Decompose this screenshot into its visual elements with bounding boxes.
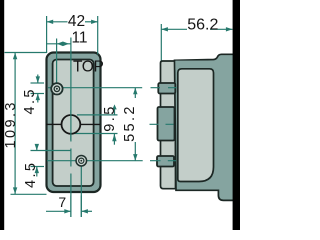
ext line 56.2 left bbox=[160, 24, 162, 61]
dim 42 arrow left bbox=[47, 20, 54, 24]
centerline over circle bbox=[70, 110, 72, 140]
side view body silhouette bbox=[175, 54, 235, 200]
ext line 4.5top lower bbox=[31, 93, 45, 95]
ext line 9.5 top bbox=[77, 114, 118, 116]
svg-text:42: 42 bbox=[68, 13, 85, 30]
ext line 109.3 top bbox=[5, 52, 47, 54]
svg-text:109.3: 109.3 bbox=[3, 100, 19, 148]
big circle bbox=[62, 115, 81, 134]
dim 109.3 arrow top bbox=[13, 53, 17, 60]
dim 7 arrow right-pointing bbox=[64, 209, 71, 213]
dim 9.5 arrow up-inward bbox=[112, 134, 116, 142]
dim 4.5top arrow up bbox=[36, 94, 40, 101]
dim 4.5bot arrow down bbox=[35, 144, 39, 151]
dim 4.5bot arrow up bbox=[35, 167, 39, 174]
centerline screw3 vertical lower bbox=[80, 166, 82, 217]
side view front plate bbox=[161, 61, 176, 189]
dim 56.2 arrow right-pointing bbox=[226, 27, 233, 31]
centerline tab2 dashes bbox=[150, 123, 174, 125]
screw2 bottom bbox=[75, 155, 87, 167]
dim 9.5 upper shaft bbox=[114, 109, 116, 115]
dim 7 arrow left-pointing bbox=[81, 209, 88, 213]
dim 4.5bot upper line bbox=[36, 144, 38, 151]
ext line 42 right bbox=[97, 16, 99, 55]
ext line 109.3 bottom bbox=[11, 193, 47, 195]
dim 4.5top lower line bbox=[37, 94, 39, 103]
black axis line through circle left bbox=[46, 123, 62, 125]
dim 4.5top arrow down bbox=[36, 76, 40, 83]
svg-text:TOP: TOP bbox=[73, 58, 103, 75]
centerline circle vertical bbox=[70, 38, 72, 218]
ext line 4.5top upper bbox=[31, 82, 45, 84]
ext line 9.5 bottom bbox=[70, 133, 118, 135]
left black bar bbox=[0, 0, 4, 230]
svg-text:9.5: 9.5 bbox=[102, 104, 118, 131]
dimension extension lines (teal) bbox=[5, 16, 162, 217]
svg-text:11: 11 bbox=[71, 30, 87, 47]
dim 11 line bbox=[47, 43, 71, 45]
dim 42 arrow right bbox=[91, 20, 98, 24]
svg-text:4.5: 4.5 bbox=[22, 87, 38, 114]
svg-text:7: 7 bbox=[58, 194, 66, 210]
centerline screw1 horizontal bbox=[48, 87, 142, 89]
side view top band bbox=[175, 61, 213, 70]
front view outer housing bbox=[47, 53, 101, 193]
centerline screw1 vertical bbox=[56, 39, 58, 85]
tab1 bbox=[158, 83, 175, 94]
dim 55.2 line bottom bbox=[134, 142, 136, 161]
ext line 42 left bbox=[46, 16, 48, 53]
dimension texts bbox=[3, 13, 218, 210]
dim 56.2 arrow left-pointing bbox=[161, 27, 168, 31]
svg-text:4.5: 4.5 bbox=[23, 161, 39, 188]
front view inner panel bbox=[53, 60, 94, 187]
right black bar bbox=[233, 0, 240, 230]
svg-text:55.2: 55.2 bbox=[122, 104, 138, 142]
dim 56.2 line left bbox=[161, 28, 187, 30]
dim 109.3 arrow bottom bbox=[13, 187, 17, 194]
centerline tab1 dashes bbox=[151, 87, 177, 89]
dim 55.2 line top bbox=[134, 88, 136, 98]
dim 56.2 line right bbox=[210, 28, 233, 30]
dim 11 arrows diamond bbox=[57, 42, 69, 47]
ext line 7 right tick bbox=[80, 196, 82, 218]
ext line 7 left tick bbox=[70, 196, 72, 218]
dim 42 line right bbox=[85, 21, 98, 23]
dim 7 line left bbox=[46, 210, 71, 212]
ext line 4.5bot lower bbox=[31, 166, 45, 168]
dim 9.5 lower shaft bbox=[113, 134, 115, 145]
ext line 4.5bot upper bbox=[31, 150, 72, 152]
tab2 bbox=[158, 107, 175, 141]
svg-text:56.2: 56.2 bbox=[187, 16, 218, 33]
tab3 bbox=[157, 156, 174, 167]
centerline tab3 dashes bbox=[150, 160, 176, 162]
dim 109.3 line bbox=[14, 53, 16, 194]
dim 7 line right bbox=[81, 210, 92, 212]
side view cavity bbox=[178, 69, 214, 182]
dim 9.5 arrow up-outward bbox=[112, 104, 116, 109]
dim 4.5top upper line bbox=[37, 75, 39, 84]
dim 55.2 arrow up bbox=[133, 88, 137, 95]
dim 4.5bot lower line bbox=[36, 167, 38, 177]
black axis line through circle right bbox=[80, 123, 100, 125]
dim 42 line left bbox=[47, 21, 68, 23]
dim 55.2 arrow down bbox=[133, 154, 137, 161]
screw1 top bbox=[50, 82, 63, 95]
centerline screw3 horizontal bbox=[47, 160, 143, 162]
dimension lines and arrows bbox=[13, 20, 233, 214]
